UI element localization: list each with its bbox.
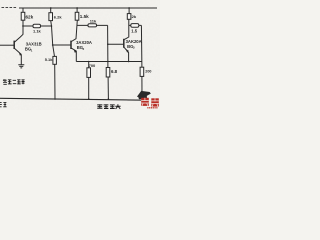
svg-text:1.1k: 1.1k — [33, 28, 42, 33]
svg-text:62k: 62k — [26, 15, 34, 20]
svg-text:5.1k: 5.1k — [45, 57, 53, 62]
svg-text:200: 200 — [145, 70, 151, 74]
svg-text:6.8: 6.8 — [111, 69, 118, 74]
svg-text:1.5: 1.5 — [131, 28, 137, 33]
svg-text:2k: 2k — [132, 14, 137, 19]
svg-text:6.2k: 6.2k — [54, 14, 63, 19]
svg-text:11k: 11k — [90, 19, 97, 24]
svg-text:1.5k: 1.5k — [80, 14, 89, 19]
svg-text:700: 700 — [89, 63, 96, 68]
